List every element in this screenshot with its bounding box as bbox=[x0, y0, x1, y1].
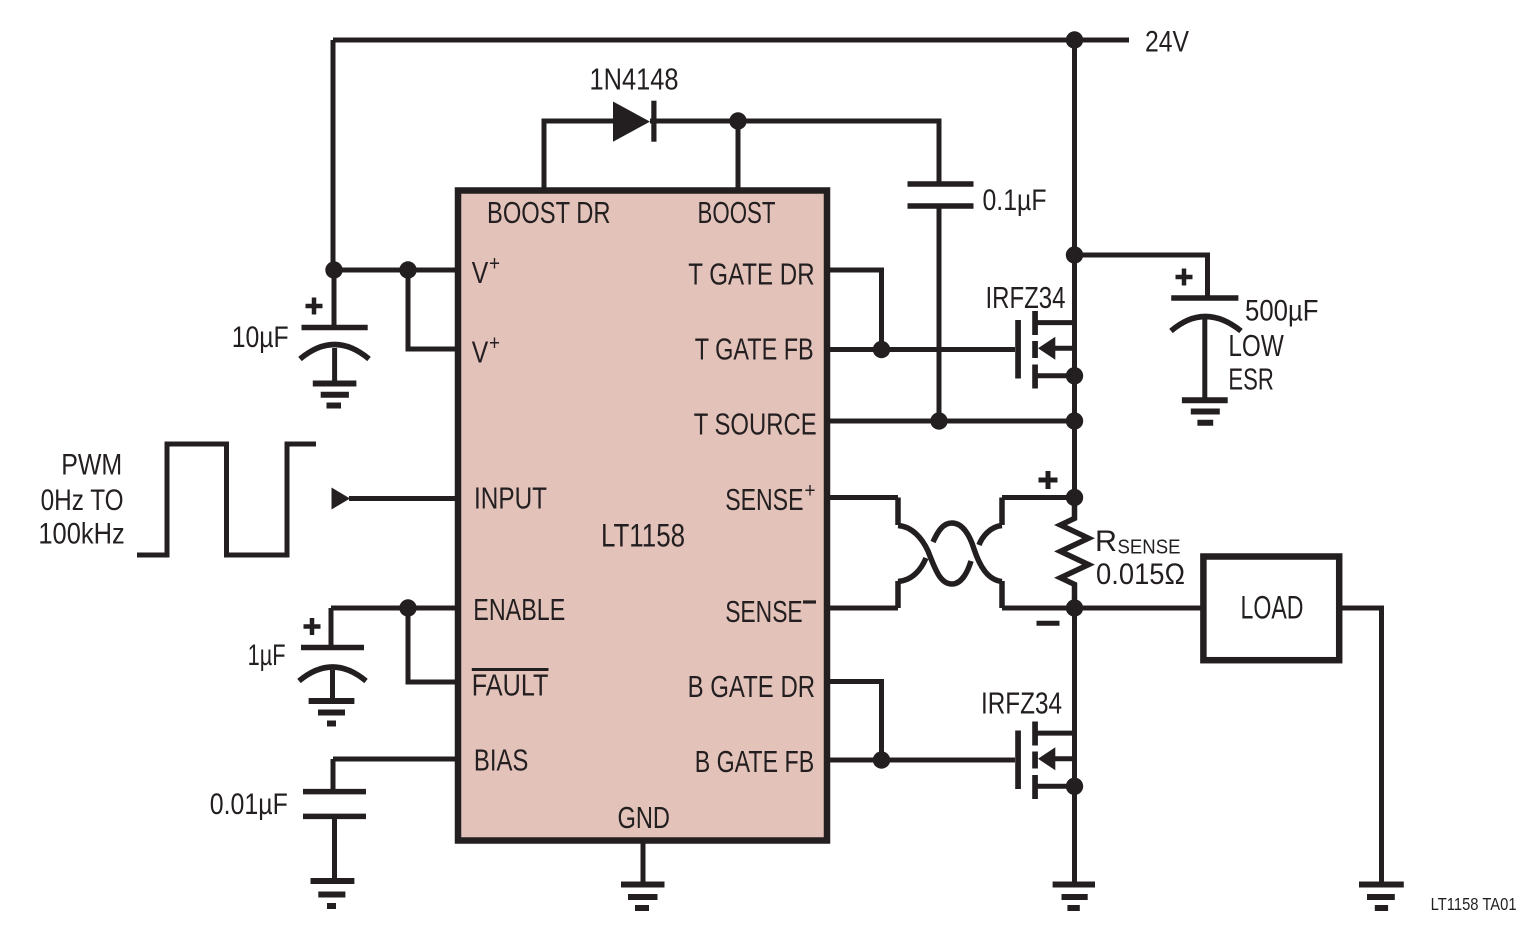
wire second V+ pin bbox=[408, 270, 458, 349]
wire 24V top rail bbox=[333, 38, 1129, 43]
wire T SOURCE bbox=[827, 419, 1075, 424]
node sense minus junction bbox=[1066, 599, 1083, 616]
svg-text:B GATE DR: B GATE DR bbox=[688, 669, 816, 704]
node top drain junction bbox=[1066, 246, 1083, 263]
svg-text:PWM: PWM bbox=[61, 449, 122, 482]
pin label V+ (1) bbox=[472, 253, 500, 291]
ground 1uF bbox=[309, 701, 355, 724]
wire BOOST pin bbox=[736, 121, 741, 190]
wire SENSE+ pin stub bbox=[827, 495, 898, 500]
svg-text:0.01µF: 0.01µF bbox=[210, 788, 288, 821]
op-amp U1 LT1158 IC body bbox=[458, 191, 827, 841]
LOAD box bbox=[1203, 557, 1339, 661]
wire V+ row bbox=[333, 268, 458, 273]
node T SOURCE 0.1uF junction bbox=[930, 412, 947, 429]
pin label SENSE+ bbox=[725, 480, 815, 518]
svg-text:SENSE: SENSE bbox=[725, 482, 803, 517]
node sense plus junction bbox=[1066, 489, 1083, 506]
wire left rail vertical to V+ bbox=[331, 40, 336, 270]
label RSENSE bbox=[1095, 525, 1185, 591]
plus sign 500uF bbox=[1176, 269, 1193, 286]
svg-text:SENSE: SENSE bbox=[725, 594, 803, 629]
node T GATE FB junction bbox=[873, 341, 890, 358]
capacitor C2 0.1uF bbox=[908, 184, 974, 206]
svg-text:+: + bbox=[489, 253, 500, 276]
plus sign 1uF bbox=[304, 618, 321, 635]
svg-text:IRFZ34: IRFZ34 bbox=[986, 280, 1066, 315]
transistor Q1 IRFZ34 top bbox=[1015, 255, 1074, 421]
label PWM source bbox=[38, 449, 124, 551]
wire B GATE DR bbox=[827, 682, 882, 761]
svg-text:R: R bbox=[1095, 525, 1117, 558]
PWM square wave symbol bbox=[137, 444, 316, 555]
node T SOURCE FET junction bbox=[1066, 412, 1083, 429]
svg-text:BOOST: BOOST bbox=[698, 195, 776, 230]
minus sign sense bbox=[1037, 621, 1060, 626]
wire T GATE DR bbox=[827, 270, 882, 350]
wire twisted top to sense resistor bbox=[1002, 495, 1075, 500]
pin label FAULT with overline bbox=[472, 668, 549, 703]
node V+ junction A bbox=[325, 261, 342, 278]
wire BIAS row bbox=[333, 757, 458, 762]
twisted pair sense wires bbox=[898, 498, 1002, 609]
capacitor C5 500uF polarized bbox=[1171, 298, 1241, 398]
svg-text:T GATE FB: T GATE FB bbox=[695, 332, 814, 367]
svg-text:V: V bbox=[472, 335, 489, 370]
wire ENABLE row bbox=[331, 606, 458, 611]
ground Q2 bbox=[1053, 885, 1095, 909]
wire 0.1uF to T SOURCE bbox=[937, 208, 942, 421]
wire sense minus to LOAD bbox=[1075, 606, 1204, 611]
wire sense minus down to Q2 drain bbox=[1072, 608, 1077, 885]
wire diode cathode to 0.1uF corner bbox=[650, 121, 939, 182]
svg-text:1µF: 1µF bbox=[248, 639, 286, 672]
node BOOST junction bbox=[729, 112, 746, 129]
svg-text:BOOST DR: BOOST DR bbox=[487, 195, 611, 230]
svg-text:IRFZ34: IRFZ34 bbox=[981, 686, 1062, 721]
svg-text:0.1µF: 0.1µF bbox=[983, 184, 1047, 217]
wire INPUT pin bbox=[349, 496, 458, 501]
wire LOAD to ground bbox=[1339, 608, 1381, 885]
svg-text:ENABLE: ENABLE bbox=[473, 592, 565, 627]
svg-text:100kHz: 100kHz bbox=[38, 518, 124, 551]
ground 0.01uF bbox=[311, 881, 355, 906]
svg-text:LOAD: LOAD bbox=[1241, 590, 1304, 626]
svg-text:SENSE: SENSE bbox=[1118, 536, 1181, 559]
capacitor C1 10uF polarized bbox=[300, 270, 369, 383]
ground LOAD bbox=[1359, 885, 1404, 909]
svg-text:GND: GND bbox=[618, 800, 671, 835]
ground IC GND bbox=[621, 885, 665, 909]
svg-text:LT1158: LT1158 bbox=[601, 518, 685, 554]
node Q1 source junction bbox=[1066, 367, 1083, 384]
svg-text:0Hz TO: 0Hz TO bbox=[41, 484, 124, 517]
wire T SOURCE down to sense plus bbox=[1072, 421, 1077, 498]
wire twisted bottom to node bbox=[1002, 606, 1075, 611]
transistor Q2 IRFZ34 bottom bbox=[1015, 722, 1074, 800]
diode D1 1N4148 bbox=[613, 101, 657, 142]
wire drain node to 500uF bbox=[1075, 255, 1208, 296]
svg-text:INPUT: INPUT bbox=[474, 481, 547, 516]
wire 24V junction down to drain node bbox=[1072, 40, 1077, 255]
wire FAULT pin bbox=[408, 608, 458, 682]
wire T GATE FB to gate bbox=[827, 347, 1015, 352]
ground 10uF bbox=[313, 384, 357, 406]
svg-text:LOW: LOW bbox=[1228, 328, 1284, 363]
svg-text:500µF: 500µF bbox=[1245, 295, 1319, 328]
capacitor C4 0.01uF bbox=[303, 759, 366, 881]
input arrow bbox=[332, 488, 351, 510]
svg-text:LT1158 TA01: LT1158 TA01 bbox=[1431, 894, 1517, 914]
resistor RSENSE 0.015ohm bbox=[1061, 498, 1089, 609]
ground 500uF bbox=[1182, 400, 1228, 422]
svg-text:T SOURCE: T SOURCE bbox=[694, 407, 817, 442]
node ENABLE junction bbox=[399, 599, 416, 616]
node 24V rail junction bbox=[1066, 31, 1083, 48]
svg-text:0.015Ω: 0.015Ω bbox=[1096, 558, 1185, 591]
pin label SENSE- bbox=[725, 594, 816, 629]
svg-text:T GATE DR: T GATE DR bbox=[688, 257, 814, 292]
label 500uF LOW ESR bbox=[1228, 295, 1318, 397]
svg-text:+: + bbox=[805, 480, 816, 503]
svg-text:ESR: ESR bbox=[1228, 362, 1273, 397]
pin label V+ (2) bbox=[472, 332, 500, 370]
wire SENSE- pin stub bbox=[827, 606, 898, 611]
svg-text:BIAS: BIAS bbox=[474, 743, 529, 778]
wire B GATE FB to gate bbox=[827, 758, 1015, 763]
svg-text:FAULT: FAULT bbox=[472, 668, 549, 703]
svg-text:+: + bbox=[489, 332, 500, 355]
wire GND pin bbox=[641, 841, 646, 885]
svg-text:V: V bbox=[472, 255, 489, 290]
svg-text:B GATE FB: B GATE FB bbox=[695, 744, 815, 779]
node Q2 source junction bbox=[1066, 778, 1083, 795]
plus sign sense bbox=[1039, 471, 1058, 489]
svg-text:24V: 24V bbox=[1145, 26, 1189, 59]
node B GATE FB junction bbox=[873, 751, 890, 768]
wire BOOST DR to diode anode bbox=[544, 121, 613, 190]
plus sign 10uF bbox=[306, 298, 323, 315]
svg-text:10µF: 10µF bbox=[232, 321, 289, 354]
node V+ junction B bbox=[399, 261, 416, 278]
svg-text:1N4148: 1N4148 bbox=[590, 62, 679, 97]
capacitor C3 1uF polarized bbox=[299, 608, 366, 701]
